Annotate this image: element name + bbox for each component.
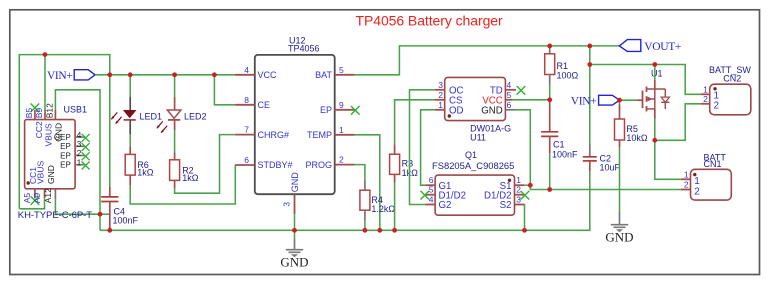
wire BAT to VOUT rail xyxy=(355,46,620,75)
pin number 1 xyxy=(339,125,344,135)
label C2 value xyxy=(600,162,621,172)
svg-text:4: 4 xyxy=(244,65,249,75)
wire R1 to VCC node xyxy=(549,84,551,100)
pin name GND bottom xyxy=(46,165,56,184)
svg-text:1kΩ: 1kΩ xyxy=(137,168,154,178)
wire C2 from rail xyxy=(589,46,591,144)
pin name CE xyxy=(258,100,271,110)
pin name GND top xyxy=(54,123,64,142)
svg-text:6: 6 xyxy=(244,155,249,165)
pin number 6 dw xyxy=(507,100,512,110)
svg-text:100Ω: 100Ω xyxy=(557,70,579,80)
pin number 4 xyxy=(244,65,249,75)
svg-text:6: 6 xyxy=(507,100,512,110)
led LED2 bottom lead xyxy=(174,120,176,130)
pin 3 OC stub xyxy=(435,89,445,91)
capacitor C4 top lead xyxy=(109,187,111,197)
svg-text:2: 2 xyxy=(703,94,708,104)
usb pin-1 marker xyxy=(27,181,30,184)
svg-text:100nF: 100nF xyxy=(113,216,139,226)
net flag VOUT+ xyxy=(619,40,681,54)
svg-text:VOUT+: VOUT+ xyxy=(644,41,681,53)
wire rail to LED2 xyxy=(174,75,176,97)
svg-text:OD: OD xyxy=(449,106,464,117)
wire PROG to R4 xyxy=(355,165,365,180)
node junction S2-bus xyxy=(522,228,527,233)
svg-text:GND: GND xyxy=(605,230,633,245)
svg-text:4: 4 xyxy=(507,80,512,90)
cn1 pin 2 stub xyxy=(681,189,691,191)
led LED2 xyxy=(167,110,181,120)
svg-text:GND: GND xyxy=(280,255,308,270)
cn2 pin-1 marker xyxy=(713,87,716,90)
pin EP 2 xyxy=(75,152,90,160)
pin number 3 dw xyxy=(438,80,443,90)
led LED1 top lead xyxy=(129,97,131,110)
pin EP 3 xyxy=(75,143,90,151)
svg-text:9: 9 xyxy=(339,100,344,110)
wire C1 to B- xyxy=(549,153,551,189)
svg-text:VBUS: VBUS xyxy=(44,123,54,146)
pin name BAT xyxy=(315,70,332,80)
node junction rail-LED1 xyxy=(128,72,133,77)
label GND left xyxy=(280,255,308,270)
pin name EP2 xyxy=(60,151,71,160)
svg-text:3: 3 xyxy=(516,195,521,205)
svg-text:2: 2 xyxy=(339,155,344,165)
svg-text:2: 2 xyxy=(714,100,720,111)
pin name VCC xyxy=(258,70,278,80)
svg-text:TP4056 Battery charger: TP4056 Battery charger xyxy=(356,13,504,29)
svg-text:CN2: CN2 xyxy=(723,73,741,83)
svg-text:3: 3 xyxy=(438,80,443,90)
label C1 value xyxy=(552,150,578,160)
capacitor C2 top lead xyxy=(589,144,591,157)
resistor R3 bottom lead xyxy=(394,174,396,182)
pin number 4 dw xyxy=(507,80,512,90)
label U12 xyxy=(289,36,306,46)
pin name EP xyxy=(320,105,332,115)
transistor U1 pmos xyxy=(637,80,669,111)
wire S1 to B- node xyxy=(524,184,530,186)
pin name CC1 xyxy=(28,167,38,184)
pin number 5 xyxy=(339,65,344,75)
resistor R3 xyxy=(390,154,400,174)
resistor R6 xyxy=(125,154,135,175)
pin label A5 xyxy=(22,193,32,204)
connector CN2 box xyxy=(710,84,751,115)
label U1 xyxy=(651,68,663,78)
svg-text:VCC: VCC xyxy=(258,70,278,80)
svg-text:S2: S2 xyxy=(500,200,512,211)
svg-text:5: 5 xyxy=(429,185,434,195)
svg-text:GEP: GEP xyxy=(54,133,71,142)
pin 7 CHRG# stub xyxy=(235,134,255,136)
label C1 xyxy=(553,140,565,150)
pin 5 VCC stub xyxy=(505,99,512,101)
pin name TD xyxy=(490,86,503,97)
svg-text:C1: C1 xyxy=(553,140,565,150)
svg-text:100nF: 100nF xyxy=(552,150,578,160)
svg-text:1: 1 xyxy=(684,169,689,179)
wire S2 to bus xyxy=(523,205,525,231)
wire LED2 to R2 xyxy=(174,130,176,153)
pin 1 S1 stub xyxy=(515,184,525,186)
node junction VCC-C1-R1 xyxy=(547,97,552,102)
resistor R3 top lead xyxy=(394,144,396,154)
pin 3 GND stub xyxy=(294,194,296,214)
wire junction to C4 lead xyxy=(100,213,110,215)
label BATT xyxy=(704,153,727,163)
pin number 2 xyxy=(339,155,344,165)
node junction source xyxy=(652,138,657,143)
pin name VBUS bottom xyxy=(35,161,45,184)
pin 4 G2 stub xyxy=(425,204,435,206)
pin name STDBY# xyxy=(258,160,293,170)
node junction C1-Bminus xyxy=(547,187,552,192)
capacitor C1 top lead xyxy=(549,100,551,132)
label R6 value xyxy=(137,168,154,178)
cn2 pin number 2 out xyxy=(703,94,708,104)
svg-text:1: 1 xyxy=(438,100,443,110)
pin number 6 q1 xyxy=(429,175,434,185)
node junction R3-bus xyxy=(392,228,397,233)
label USB1 xyxy=(64,105,88,115)
connector CN1 box xyxy=(691,169,732,200)
label R4 value xyxy=(371,204,395,214)
cn2 pin number 1 out xyxy=(703,84,708,94)
pin label B9 xyxy=(34,108,44,119)
pin number 3 xyxy=(282,202,292,207)
wire LED1 to R6 xyxy=(129,134,131,146)
label U11 xyxy=(470,133,486,143)
svg-text:LED2: LED2 xyxy=(184,112,207,122)
svg-text:EP: EP xyxy=(320,105,332,115)
wire R4 to bus xyxy=(364,220,366,230)
resistor R4 xyxy=(360,190,370,210)
svg-text:3: 3 xyxy=(282,202,292,207)
capacitor C1 bottom lead xyxy=(549,136,551,153)
svg-text:U1: U1 xyxy=(651,68,663,78)
pin name EP3 xyxy=(60,142,71,151)
pin label A9 xyxy=(32,193,42,204)
cn2 pin 1 stub xyxy=(701,93,710,95)
transistor U1 source lead xyxy=(654,109,656,119)
svg-text:5: 5 xyxy=(339,65,344,75)
svg-text:4: 4 xyxy=(429,195,434,205)
svg-text:VIN+: VIN+ xyxy=(571,95,597,107)
node junction rail-LED2 xyxy=(172,72,177,77)
pin number 2 q1 xyxy=(516,185,521,195)
svg-text:1: 1 xyxy=(516,175,521,185)
pin name GEP xyxy=(54,133,71,142)
pin 1 TEMP stub xyxy=(335,134,355,136)
pin A12 GND xyxy=(54,189,56,200)
label DW01A-G xyxy=(470,123,511,133)
cn1 pin number 2 out xyxy=(684,180,689,190)
resistor R5 top lead xyxy=(619,105,621,120)
pin EP 1 xyxy=(75,162,90,170)
label R2 xyxy=(182,166,194,176)
svg-text:TP4056: TP4056 xyxy=(288,44,320,54)
svg-text:GND: GND xyxy=(290,172,300,193)
wire B12 to GND column xyxy=(55,90,100,231)
wire top VBUS loop xyxy=(19,55,110,209)
resistor R2 bottom lead xyxy=(174,180,176,188)
svg-text:LED1: LED1 xyxy=(140,112,163,122)
svg-text:8: 8 xyxy=(244,95,249,105)
label R1 value xyxy=(557,70,579,80)
resistor R4 bottom lead xyxy=(364,210,366,220)
pin number 4 q1 xyxy=(429,195,434,205)
pin number 7 xyxy=(244,125,249,135)
pin 2 CS stub xyxy=(435,99,445,101)
node junction R4-bus xyxy=(363,228,368,233)
svg-text:VIN+: VIN+ xyxy=(47,70,73,82)
svg-text:6: 6 xyxy=(429,175,434,185)
wire rail to C4 xyxy=(109,75,111,187)
pin name EP1 xyxy=(60,161,71,170)
svg-text:B9: B9 xyxy=(34,108,44,119)
svg-text:A9: A9 xyxy=(32,193,42,204)
pin 6 G1 stub xyxy=(425,184,435,186)
resistor R6 bottom lead xyxy=(129,175,131,185)
wire R5 to ground xyxy=(619,147,621,211)
q1 pin-1 marker xyxy=(508,179,511,182)
pin name VCC dw xyxy=(482,96,502,107)
ground symbol right xyxy=(611,225,628,233)
pin number 4 usb xyxy=(77,130,82,140)
wire B9 drop xyxy=(44,55,46,110)
svg-text:BAT: BAT xyxy=(315,70,332,80)
node junction TEMP-bus xyxy=(377,228,382,233)
label R5 value xyxy=(626,133,648,143)
node junction S1 xyxy=(528,183,533,188)
svg-text:7: 7 xyxy=(244,125,249,135)
node junction rail-C2 xyxy=(587,44,592,49)
wire GND bus xyxy=(100,171,590,230)
wire source node xyxy=(654,119,656,141)
svg-text:2: 2 xyxy=(684,180,689,190)
wire source to CN1 pin1 xyxy=(655,140,681,179)
pin name OC xyxy=(449,86,464,97)
led LED2 top lead xyxy=(174,97,176,110)
label CN2 xyxy=(723,73,741,83)
capacitor C4 bottom lead xyxy=(109,202,111,231)
cn1 pin-1 marker xyxy=(693,173,696,176)
pin B5 CC2 (NC) xyxy=(31,104,40,120)
pin number 2 dw xyxy=(438,90,443,100)
svg-text:A5: A5 xyxy=(22,193,32,204)
pin 5 BAT stub xyxy=(335,74,355,76)
title TP4056 Battery charger xyxy=(356,13,504,29)
wire R6 to STDBY# xyxy=(130,165,235,204)
resistor R1 bottom lead xyxy=(549,75,551,85)
node junction feed-C2col xyxy=(587,62,592,67)
svg-text:EP: EP xyxy=(60,142,71,151)
label LED2 xyxy=(184,112,207,122)
label CN1 xyxy=(704,159,722,169)
svg-text:B5: B5 xyxy=(24,108,34,119)
resistor R2 xyxy=(170,160,180,181)
node junction C4-bus xyxy=(107,228,112,233)
transistor Q1 FS8205A box xyxy=(435,175,514,215)
svg-text:1: 1 xyxy=(77,157,82,167)
pin name PROG xyxy=(305,160,332,170)
led LED1 bottom lead xyxy=(129,120,131,134)
svg-text:5: 5 xyxy=(507,90,512,100)
label TP4056 xyxy=(288,44,320,54)
pin name CS xyxy=(449,96,463,107)
cn2 pin 2 stub xyxy=(701,103,710,105)
pin GEP 4 xyxy=(75,134,90,142)
pin label A12 xyxy=(43,188,53,203)
label LED1 xyxy=(140,112,163,122)
svg-text:10kΩ: 10kΩ xyxy=(626,133,648,143)
pin number 2 usb xyxy=(77,148,82,158)
pin name D1/D2 right xyxy=(484,190,511,201)
cn1 pin number 1 out xyxy=(684,169,689,179)
pin number 9 xyxy=(339,100,344,110)
node junction GND-bus xyxy=(292,228,297,233)
capacitor C1 xyxy=(541,132,558,137)
label C4 value xyxy=(113,216,139,226)
label R4 xyxy=(371,195,383,205)
capacitor C4 xyxy=(101,197,118,202)
pin name G1 xyxy=(439,181,452,192)
node junction rail-R1 xyxy=(547,44,552,49)
wire OD to G1 xyxy=(421,110,435,185)
pin name D1/D2 left xyxy=(439,190,466,201)
pin 1 OD stub xyxy=(435,109,445,111)
pin B12 GND xyxy=(54,110,56,120)
svg-text:B12: B12 xyxy=(45,103,55,118)
svg-text:Q1: Q1 xyxy=(465,150,477,160)
pin name GND dw xyxy=(481,106,503,117)
node junction GND-A12-C4 xyxy=(98,212,103,217)
svg-text:1: 1 xyxy=(339,125,344,135)
label R3 xyxy=(402,159,414,169)
svg-text:TEMP: TEMP xyxy=(307,130,332,140)
led LED1 arrows xyxy=(111,112,121,123)
wire rail to LED1 xyxy=(129,75,131,97)
wire DW VCC to C1 xyxy=(512,99,550,101)
wire TEMP to bus xyxy=(355,135,380,231)
led LED1 xyxy=(123,110,137,120)
pin 2 D1/D2 stub xyxy=(515,191,530,200)
pin name CHRG# xyxy=(258,130,290,140)
pin 6 GND stub xyxy=(505,109,515,111)
pin 4 VCC stub xyxy=(235,74,255,76)
pin number 3 q1 xyxy=(516,195,521,205)
ic U11 DW01A-G box xyxy=(445,77,506,120)
svg-text:CHRG#: CHRG# xyxy=(258,130,290,140)
svg-text:CN1: CN1 xyxy=(704,159,722,169)
svg-text:KH-TYPE-C-6P-T: KH-TYPE-C-6P-T xyxy=(18,210,92,221)
pin name S1 xyxy=(500,181,512,192)
svg-text:GND: GND xyxy=(46,165,56,184)
pin label B5 xyxy=(24,108,34,119)
wire VIN+ rail xyxy=(95,74,235,76)
wire CS to R3 xyxy=(395,100,435,145)
svg-text:A12: A12 xyxy=(43,188,53,203)
svg-text:1: 1 xyxy=(703,84,708,94)
pin name CC2 xyxy=(34,121,44,138)
wire R3 to bus xyxy=(394,183,396,231)
resistor R5 xyxy=(615,119,625,140)
resistor R1 top lead xyxy=(549,46,551,54)
dw01 pin-1 marker xyxy=(448,114,451,117)
node junction VIN-R5-gate xyxy=(617,98,622,103)
pin name G2 xyxy=(439,200,452,211)
cn2 pin name 1 xyxy=(714,91,720,102)
svg-text:2: 2 xyxy=(516,185,521,195)
wire OC to G2 xyxy=(410,90,435,205)
capacitor C2 xyxy=(583,157,597,161)
pin number 1 q1 xyxy=(516,175,521,185)
svg-text:2: 2 xyxy=(694,186,700,197)
ground symbol right lead xyxy=(619,211,621,224)
wire VIN to R5 xyxy=(619,100,621,104)
node junction rail-CE xyxy=(212,72,217,77)
pin 3 S2 stub xyxy=(515,204,525,206)
wire FET feed xyxy=(590,65,701,95)
label KH-TYPE-C-6P-T xyxy=(18,210,92,221)
ground symbol left lead xyxy=(294,230,296,249)
cn2 pin name 2 xyxy=(714,100,720,111)
pin number 5 q1 xyxy=(429,185,434,195)
resistor R2 top lead xyxy=(174,153,176,160)
label Q1 xyxy=(465,150,477,160)
svg-text:1.2kΩ: 1.2kΩ xyxy=(371,204,395,214)
label GND right xyxy=(605,230,633,245)
svg-text:CE: CE xyxy=(258,100,271,110)
pin 2 PROG stub xyxy=(335,164,355,166)
label BATT_SW xyxy=(709,65,751,75)
svg-text:CC2: CC2 xyxy=(34,121,44,138)
svg-text:G2: G2 xyxy=(439,200,452,211)
wire A12 to GND junction xyxy=(55,199,100,214)
svg-text:STDBY#: STDBY# xyxy=(258,160,293,170)
usb connector USB1 box xyxy=(25,120,76,189)
wire CE branch xyxy=(214,75,235,105)
resistor R4 top lead xyxy=(364,180,366,190)
svg-text:GND: GND xyxy=(481,106,503,117)
pin A9 VBUS xyxy=(44,189,46,199)
pin 4 TD stub xyxy=(505,86,525,95)
resistor R1 xyxy=(545,54,555,75)
svg-text:10uF: 10uF xyxy=(600,162,621,172)
svg-text:1kΩ: 1kΩ xyxy=(182,173,199,183)
label R3 value xyxy=(402,168,419,178)
node junction feed-drain xyxy=(652,62,657,67)
label C4 xyxy=(114,207,126,217)
pin A5 CC1 (NC) xyxy=(31,189,40,205)
pin 5 D1/D2 stub xyxy=(421,191,436,200)
pin label B12 xyxy=(45,103,55,118)
label FS8205A_C908265 xyxy=(432,160,514,171)
pin number 1 usb xyxy=(77,157,82,167)
pin number 5 dw xyxy=(507,90,512,100)
ground symbol left xyxy=(286,250,303,258)
pin number 1 dw xyxy=(438,100,443,110)
svg-text:U11: U11 xyxy=(470,133,486,143)
svg-text:VBUS: VBUS xyxy=(35,161,45,184)
cn1 pin name 2 xyxy=(694,186,700,197)
pin name OD xyxy=(449,106,464,117)
cn1 pin name 1 xyxy=(694,176,700,187)
label R6 xyxy=(137,160,149,170)
